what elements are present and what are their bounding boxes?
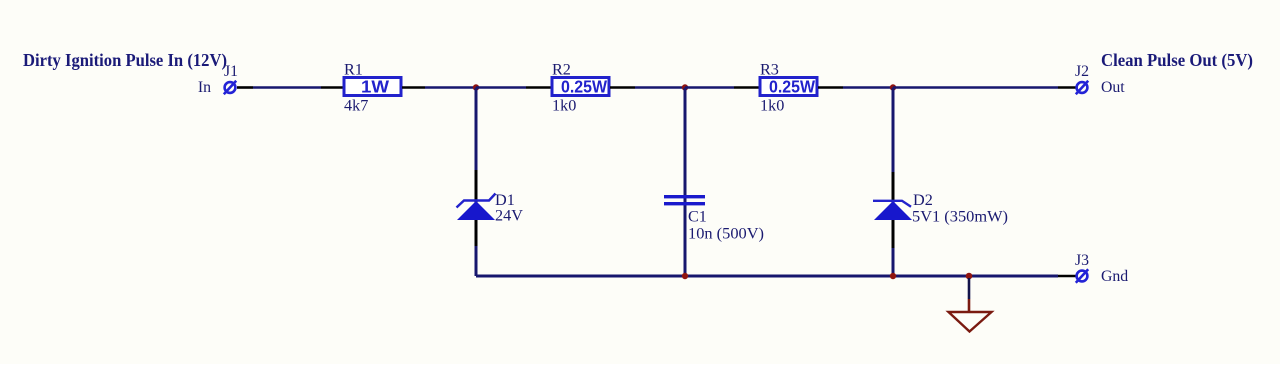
wire node B to R3 <box>685 86 734 89</box>
svg-text:R3: R3 <box>760 61 779 79</box>
junction dot ground/rail <box>966 273 973 280</box>
svg-text:J2: J2 <box>1075 63 1089 80</box>
wire node C down to D2 <box>892 88 895 173</box>
capacitor C1 plates <box>664 195 705 205</box>
svg-text:Out: Out <box>1101 79 1125 96</box>
svg-text:J3: J3 <box>1075 252 1089 269</box>
svg-text:5V1 (350mW): 5V1 (350mW) <box>912 208 1008 226</box>
svg-text:10n (500V): 10n (500V) <box>688 225 764 243</box>
svg-text:24V: 24V <box>495 207 523 225</box>
resistor R2 <box>552 78 609 96</box>
wire D1 to bottom rail corner <box>475 246 478 276</box>
svg-text:Dirty Ignition Pulse In (12V): Dirty Ignition Pulse In (12V) <box>23 50 227 71</box>
svg-text:1W: 1W <box>361 77 390 97</box>
svg-text:C1: C1 <box>688 208 707 226</box>
svg-text:1k0: 1k0 <box>552 97 576 115</box>
junction dot D2/rail <box>890 273 896 279</box>
svg-text:D2: D2 <box>913 191 933 209</box>
ground stem <box>968 278 971 299</box>
node B junction dot <box>682 84 688 90</box>
ground symbol <box>949 312 992 332</box>
node C junction dot <box>890 84 896 90</box>
wire node B down to C1 <box>684 88 687 277</box>
zener diode D1 <box>457 194 496 221</box>
D1 pin (black) <box>475 170 478 246</box>
wire J1 to R1 <box>237 86 253 89</box>
svg-text:Clean Pulse Out (5V): Clean Pulse Out (5V) <box>1101 50 1253 71</box>
wire D2 to bottom rail <box>892 248 895 276</box>
connector J1 symbol <box>224 81 236 94</box>
wire R2 to node B <box>610 86 635 89</box>
connector J2 symbol <box>1076 81 1088 94</box>
resistor R3 <box>760 78 817 96</box>
node A junction dot <box>473 84 479 90</box>
svg-text:0.25W: 0.25W <box>769 77 815 97</box>
svg-text:R1: R1 <box>344 61 363 79</box>
bottom rail wire <box>476 275 1058 278</box>
wire node A down to D1 <box>475 88 478 171</box>
svg-text:R2: R2 <box>552 61 571 79</box>
svg-text:Gnd: Gnd <box>1101 268 1128 285</box>
D2 pin (black) <box>892 172 895 248</box>
wire R1 to node A <box>402 86 425 89</box>
connector J3 symbol <box>1076 269 1088 282</box>
svg-text:4k7: 4k7 <box>344 97 368 115</box>
junction dot C1/rail <box>682 273 688 279</box>
wire R3 to node C <box>818 86 843 89</box>
svg-text:J1: J1 <box>224 63 238 80</box>
wire node A to R2 <box>476 86 526 89</box>
resistor R1 <box>344 78 401 96</box>
svg-text:In: In <box>198 79 211 96</box>
zener diode D2 <box>873 201 912 220</box>
svg-text:0.25W: 0.25W <box>561 77 607 97</box>
svg-text:1k0: 1k0 <box>760 97 784 115</box>
wire node C to J2 <box>893 86 1058 89</box>
